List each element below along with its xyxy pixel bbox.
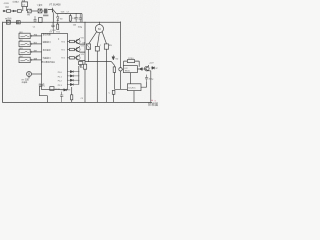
capacitor C11 bbox=[145, 75, 148, 82]
capacitor CS bbox=[95, 46, 99, 51]
svg-text:FU: FU bbox=[6, 7, 9, 9]
resistor R10 bbox=[127, 60, 134, 63]
wire bbox=[23, 7, 27, 12]
resistor R11 bbox=[113, 67, 115, 73]
DC/DC box bbox=[127, 84, 141, 91]
wire mains lower rail bbox=[3, 21, 121, 23]
wire bbox=[30, 43, 41, 45]
svg-text:VT4: VT4 bbox=[81, 54, 84, 56]
wire collector down bbox=[52, 13, 54, 22]
wire bbox=[124, 61, 140, 67]
wire bbox=[42, 10, 44, 12]
IC U1 PIC/80C51 bbox=[42, 33, 68, 89]
svg-text:R 510: R 510 bbox=[128, 58, 134, 60]
capacitor C4 bbox=[79, 14, 82, 23]
svg-text:RL8B: RL8B bbox=[55, 89, 61, 91]
wire bbox=[30, 35, 41, 37]
junction bbox=[97, 102, 98, 103]
svg-text:SB1: SB1 bbox=[19, 32, 22, 34]
svg-text:C7: C7 bbox=[67, 12, 69, 14]
wire bbox=[133, 91, 135, 103]
wire bbox=[5, 10, 7, 12]
svg-text:VZ: VZ bbox=[155, 68, 157, 70]
wire bbox=[28, 77, 30, 79]
transistor VT10 bbox=[145, 66, 150, 71]
bridge VD1 bbox=[38, 9, 42, 13]
pin row diode 3 bbox=[67, 79, 78, 81]
transistor VT bbox=[48, 8, 56, 14]
svg-text:SB2: SB2 bbox=[19, 40, 22, 42]
junction bbox=[76, 13, 77, 14]
transformer T secondary bbox=[39, 18, 43, 23]
wire bbox=[105, 49, 107, 102]
wire motor branch left bbox=[89, 32, 97, 44]
wire top rail right of VT bbox=[56, 14, 82, 23]
wire motor branch mid bbox=[97, 33, 99, 47]
svg-text:VT. BU408: VT. BU408 bbox=[49, 4, 61, 7]
wire bbox=[39, 9, 41, 23]
diode VD0 bbox=[13, 10, 15, 12]
capacitor C3 bbox=[75, 14, 78, 23]
wire PSU feed bbox=[120, 22, 122, 68]
wire IC supply bbox=[52, 22, 54, 33]
svg-text:C9: C9 bbox=[81, 98, 83, 100]
wire bbox=[129, 73, 131, 84]
diode VD6 bbox=[112, 55, 115, 60]
driver row 3 transistor bbox=[74, 54, 84, 60]
driver row 1 transistor bbox=[74, 38, 84, 44]
terminal input bbox=[3, 10, 5, 12]
svg-text:+12V: +12V bbox=[149, 62, 154, 64]
junction bbox=[106, 61, 107, 62]
wire bbox=[114, 72, 127, 89]
svg-text:470μ: 470μ bbox=[149, 79, 154, 81]
junction bbox=[78, 71, 79, 72]
junction bbox=[84, 22, 85, 23]
transformer T primary bbox=[44, 9, 47, 14]
svg-text:P2.2: P2.2 bbox=[61, 58, 65, 60]
transformer core bbox=[43, 14, 48, 17]
wire left border neutral bbox=[2, 22, 4, 103]
capacitor C2 bbox=[34, 16, 37, 22]
junction bbox=[78, 75, 79, 76]
wire return left bbox=[40, 86, 48, 102]
junction bbox=[85, 102, 86, 103]
switch SB3 bbox=[19, 49, 30, 54]
junction bbox=[88, 61, 89, 62]
pin tick bbox=[31, 59, 33, 61]
motor M bbox=[98, 22, 100, 24]
svg-text:PIC/80C51A: PIC/80C51A bbox=[41, 61, 55, 64]
diode VD2 bbox=[57, 14, 59, 23]
pin row diode 1 bbox=[67, 70, 78, 72]
wire bbox=[120, 71, 122, 89]
svg-text:100μ: 100μ bbox=[78, 26, 83, 28]
crystal dot bbox=[58, 38, 59, 39]
IC2 regulator bbox=[123, 66, 137, 73]
zener VZ bbox=[151, 66, 155, 69]
wire bbox=[30, 51, 41, 53]
switch SB2 bbox=[19, 41, 30, 46]
svg-text:VD3: VD3 bbox=[61, 12, 65, 14]
fuse FU bbox=[7, 10, 11, 13]
capacitor C10 bbox=[119, 68, 122, 71]
driver row 2 transistor bbox=[74, 46, 84, 52]
svg-text:滤波: 滤波 bbox=[22, 0, 26, 3]
resistor R1 bbox=[17, 10, 21, 13]
svg-text:~220V: ~220V bbox=[3, 3, 10, 5]
wire motor branch right bbox=[102, 32, 106, 44]
svg-text:DC/DC: DC/DC bbox=[129, 87, 136, 89]
wire bbox=[96, 51, 98, 102]
svg-text:P1.3: P1.3 bbox=[58, 85, 62, 87]
switch SB4 bbox=[19, 57, 30, 62]
junction bbox=[97, 61, 98, 62]
thermistor RT bbox=[27, 72, 32, 77]
connector XS bbox=[16, 21, 20, 24]
switch SB1 bbox=[19, 33, 30, 38]
zener VD11 bbox=[150, 71, 152, 103]
svg-text:P1.0: P1.0 bbox=[58, 72, 62, 74]
junction bbox=[47, 102, 48, 103]
wire bbox=[113, 94, 115, 102]
wire bbox=[141, 82, 147, 88]
resistor R3 bbox=[57, 22, 59, 24]
pin row diode 2 bbox=[67, 75, 78, 77]
wire bbox=[32, 73, 42, 75]
filter box C1 bbox=[22, 2, 28, 7]
wire diode bus bbox=[78, 66, 80, 85]
svg-text:VT3: VT3 bbox=[81, 46, 84, 48]
PTC RS bbox=[104, 44, 108, 49]
junction bbox=[78, 80, 79, 81]
wire bbox=[11, 10, 18, 12]
svg-text:调速: 调速 bbox=[34, 57, 38, 60]
protector KR bbox=[86, 44, 90, 49]
resistor R2 bbox=[69, 14, 71, 16]
switch to PSU bbox=[111, 62, 114, 67]
varistor RV bbox=[28, 9, 32, 13]
junction bbox=[134, 102, 135, 103]
pin tick bbox=[31, 51, 33, 53]
svg-text:P1.2: P1.2 bbox=[58, 81, 62, 83]
svg-text:P2.0: P2.0 bbox=[61, 41, 65, 43]
wire bbox=[30, 59, 41, 61]
diode VD10 bbox=[139, 68, 144, 71]
lamp HL bbox=[6, 20, 10, 24]
svg-text:VT2: VT2 bbox=[81, 38, 84, 40]
wire bbox=[88, 49, 90, 61]
diode VD8 bbox=[61, 89, 71, 91]
svg-text:制冷: 制冷 bbox=[34, 41, 38, 44]
pin tick bbox=[31, 43, 33, 45]
wire neutral drop bbox=[84, 22, 86, 64]
svg-text:C2: C2 bbox=[33, 27, 35, 29]
driver row 2 resistor bbox=[67, 49, 69, 51]
wire bbox=[84, 69, 86, 102]
svg-text:78L05: 78L05 bbox=[125, 70, 130, 72]
resistor R8 bbox=[71, 87, 73, 95]
wire bottom rail bbox=[2, 101, 152, 103]
ground bbox=[79, 65, 82, 68]
capacitor C12 bbox=[112, 90, 115, 94]
svg-text:开停: 开停 bbox=[34, 33, 38, 36]
svg-text:交流输入: 交流输入 bbox=[12, 1, 19, 4]
driver row 1 resistor bbox=[67, 41, 69, 43]
capacitor C6 bbox=[78, 62, 82, 65]
junction bbox=[65, 13, 66, 14]
svg-text:SB3: SB3 bbox=[19, 48, 22, 50]
svg-text:P1.1: P1.1 bbox=[58, 76, 62, 78]
svg-text:精修图: 精修图 bbox=[148, 102, 159, 107]
wire bbox=[31, 10, 38, 12]
junction bbox=[99, 22, 100, 23]
pin tick bbox=[31, 35, 33, 37]
capacitor C5 bbox=[51, 22, 54, 28]
driver row 3 resistor bbox=[67, 57, 69, 59]
pin row diode 4 bbox=[67, 83, 78, 85]
wire bbox=[122, 68, 139, 70]
svg-text:SB4: SB4 bbox=[19, 56, 22, 58]
capacitor C8 bbox=[60, 92, 63, 103]
svg-text:R 1k: R 1k bbox=[56, 32, 60, 34]
wire run rail bbox=[85, 61, 111, 63]
relay RL bbox=[50, 87, 54, 91]
svg-text:定时: 定时 bbox=[34, 49, 38, 52]
relay contact box bbox=[84, 64, 87, 69]
svg-text:P2.1: P2.1 bbox=[61, 49, 65, 51]
junction bbox=[53, 22, 54, 23]
